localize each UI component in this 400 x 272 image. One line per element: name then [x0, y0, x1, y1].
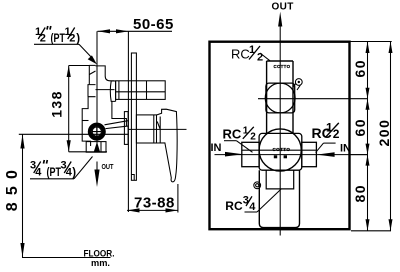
- svg-text:OUT: OUT: [102, 162, 114, 171]
- right port rectangle: [302, 142, 317, 166]
- body shoulder line: [96, 89, 115, 91]
- svg-text:RC: RC: [225, 199, 243, 213]
- dimension 850 line: [22, 134, 24, 257]
- svg-text:OUT: OUT: [272, 2, 294, 13]
- body step below pipe: [112, 101, 127, 126]
- dimension 73-88 line: [127, 209, 178, 211]
- label RC1/2 (left) leader underline: [224, 140, 236, 142]
- svg-text:2: 2: [250, 131, 256, 142]
- center line (side view, body axis): [19, 133, 129, 135]
- label RC1/2 (right) leader diagonal: [316, 143, 324, 153]
- line through main circle: [242, 149, 317, 151]
- svg-text:80: 80: [352, 184, 368, 203]
- svg-text:1: 1: [243, 125, 249, 136]
- right dimension extension bottom: [351, 230, 391, 232]
- body ledge line: [82, 120, 88, 122]
- svg-text:73-88: 73-88: [134, 194, 175, 211]
- wall line: [127, 31, 129, 212]
- flange plate (escutcheon): [131, 53, 136, 180]
- top pipe hex nut: [110, 81, 119, 102]
- dimension 50-65 line: [98, 30, 173, 32]
- OUT down arrow (side view): [96, 162, 98, 174]
- svg-text:(PT: (PT: [51, 33, 66, 45]
- left port rectangle: [242, 142, 259, 166]
- dimension 138 top extension line: [69, 65, 90, 67]
- body left profile: [82, 85, 95, 146]
- outlet port inner line: [100, 142, 102, 153]
- main circle: [259, 129, 301, 171]
- handle inner lines: [157, 117, 160, 144]
- top lug dot: [298, 81, 300, 83]
- backplate behind wall: [124, 112, 128, 145]
- top pipe body: [116, 81, 166, 100]
- port center vertical line x=97: [96, 31, 98, 152]
- dimension 850 top arrow: [20, 134, 24, 148]
- label 1/2 leader underline: [34, 43, 79, 45]
- svg-text:4: 4: [249, 201, 256, 213]
- top port column: [267, 61, 293, 133]
- small ring on column: [254, 182, 261, 189]
- svg-text:60: 60: [352, 59, 368, 78]
- dimension 850 bottom arrow: [20, 243, 24, 257]
- svg-text:IN: IN: [211, 142, 222, 154]
- svg-text:1: 1: [249, 44, 255, 56]
- svg-text:850: 850: [4, 163, 21, 211]
- label RC1/2 (top): [231, 44, 263, 64]
- main circle H/C dots: [274, 155, 287, 158]
- spout pipe to wall (upper line): [105, 121, 129, 125]
- dimension line B (200): [390, 42, 392, 231]
- dim A arrows: [366, 42, 370, 54]
- label 3/4 leader arrowhead: [94, 142, 101, 153]
- dimension 73-88 right extension line: [177, 184, 179, 213]
- label RC1/2 (right) leader underline: [324, 142, 336, 144]
- top pipe coupling line: [146, 81, 148, 100]
- dimension 73-88 left arrow: [127, 208, 139, 212]
- handle lever: [157, 109, 178, 182]
- right dimension extension top: [350, 41, 392, 43]
- extension line at y=155 boundary: [350, 154, 368, 156]
- label 1/2 fraction slashes: [38, 28, 74, 40]
- label RC3/4 leader: [257, 189, 281, 212]
- main rounded square plate: [259, 133, 302, 170]
- body top block: [96, 66, 115, 81]
- label RC1/2 (top) leader: [260, 53, 270, 61]
- dimension 50-65 right arrow: [116, 29, 128, 33]
- label 1/2 leader diagonal: [79, 44, 94, 60]
- label RC3/4 leader underline: [245, 211, 258, 213]
- label RC1/2 (right): [312, 121, 340, 142]
- top lug circle: [295, 79, 302, 86]
- outlet circle (bold ring): [90, 125, 104, 139]
- center line (side view, cartridge axis): [128, 128, 186, 130]
- spout pipe to wall (lower line): [106, 126, 129, 129]
- top circle: [265, 83, 295, 113]
- svg-text:60: 60: [352, 118, 368, 137]
- label RC3/4: [225, 195, 256, 213]
- svg-text:138: 138: [49, 90, 65, 118]
- dimension line A (60/60/80): [367, 42, 369, 231]
- 3/4 outlet port rectangle: [86, 142, 106, 153]
- label 1/2"(PT1/2): [35, 26, 80, 45]
- label 3/4"(PT3/4): [30, 160, 76, 180]
- svg-text:RC: RC: [223, 126, 242, 141]
- valve body top stub (1/2 inlet): [89, 65, 95, 84]
- label 3/4 leader underline: [30, 178, 74, 180]
- label 1/2 leader arrowhead: [88, 55, 97, 64]
- OUT up arrowhead: [278, 12, 282, 27]
- dimension 138 bottom arrow: [67, 140, 71, 152]
- cartridge body: [136, 115, 156, 143]
- dimension 138 line: [68, 66, 70, 152]
- svg-text:): ): [76, 33, 80, 45]
- horizontal line through top circle to dim: [258, 98, 368, 100]
- svg-text:COTTO: COTTO: [274, 64, 291, 69]
- svg-text:IN: IN: [340, 142, 351, 154]
- lower outer column (rounded bottom): [259, 170, 299, 227]
- dimension 138 bottom extension line: [69, 151, 107, 153]
- stub chamfer: [89, 71, 95, 75]
- dimension 50-65 left arrow: [98, 29, 110, 33]
- outlet circle cross: [92, 127, 101, 136]
- label RC1/2 (left) leader diagonal: [236, 141, 252, 153]
- dimension 138 top arrow: [67, 66, 71, 78]
- cartridge taper line: [153, 115, 155, 143]
- label RC1/2 (left): [223, 125, 257, 142]
- wall box: [210, 42, 350, 230]
- IN arrow (right): [317, 152, 335, 157]
- label 3/4 double prime: [44, 160, 48, 164]
- flange bottom foot: [131, 175, 134, 181]
- label 3/4 fraction slashes: [34, 162, 71, 174]
- top lug tabs: [293, 84, 300, 90]
- floor line: [22, 257, 111, 259]
- dim B arrows: [389, 42, 393, 54]
- svg-text:200: 200: [376, 119, 392, 147]
- outlet circle inner: [92, 127, 101, 136]
- svg-text:COTTO: COTTO: [273, 147, 291, 152]
- svg-text:3: 3: [243, 195, 249, 207]
- top pipe inner line: [116, 91, 166, 93]
- svg-text:(PT: (PT: [47, 167, 62, 179]
- top rounded square: [266, 83, 295, 113]
- ports center line: [215, 154, 368, 156]
- IN arrow (left): [225, 152, 243, 157]
- label 3/4 leader diagonal: [74, 157, 93, 179]
- svg-text:mm.: mm.: [91, 258, 110, 269]
- dimension 73-88 right arrow: [166, 208, 178, 212]
- svg-text:RC: RC: [231, 47, 250, 62]
- center vertical line with OUT up arrow: [279, 24, 281, 236]
- label 1/2 double prime: [47, 26, 51, 30]
- svg-text:50-65: 50-65: [133, 16, 174, 33]
- lower inner tube: [266, 170, 294, 189]
